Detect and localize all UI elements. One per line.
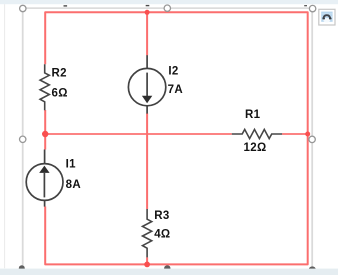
selection handle top-middle [164, 5, 170, 11]
svg-text:R1: R1 [245, 109, 261, 121]
current source I1 [26, 150, 63, 207]
junction node left-middle [42, 131, 48, 137]
bottom blue strip [0, 269, 338, 275]
selection handle bottom-left (clipped by strip) [19, 265, 25, 271]
selection handle bottom-middle (clipped by strip) [164, 265, 170, 271]
faint left panel line [4, 4, 5, 268]
junction node top [145, 10, 150, 15]
resistor R2 [40, 64, 49, 110]
wire middle vertical below R3 [146, 257, 148, 264]
resistor R3 [143, 209, 152, 257]
scroll button top-right [319, 9, 335, 25]
svg-text:4Ω: 4Ω [154, 229, 170, 241]
selection handle left-middle [20, 136, 26, 142]
wire middle horizontal left of R1 [45, 133, 232, 135]
selection handle right-middle [309, 136, 315, 142]
resistor R1 [232, 129, 282, 138]
wire middle vertical between I2 and R3 [146, 113, 148, 209]
selection frame right line [311, 8, 313, 269]
svg-text:I1: I1 [66, 159, 77, 171]
ruler dash left [64, 5, 68, 6]
current source I2 [128, 55, 165, 113]
svg-text:R2: R2 [52, 68, 67, 80]
selection handle top-right [309, 5, 315, 11]
svg-text:6Ω: 6Ω [52, 87, 68, 99]
junction node right-middle [305, 132, 310, 137]
wire middle horizontal right of R1 [282, 133, 308, 135]
selection frame left line [22, 8, 24, 269]
top blue strip [0, 0, 338, 4]
svg-text:I2: I2 [168, 66, 178, 78]
wire outer loop (top, right, bottom) [45, 12, 308, 264]
selection handle bottom-right (clipped by strip) [309, 266, 316, 272]
scroll button glyph [323, 15, 330, 19]
ruler dash middle [146, 5, 150, 6]
selection frame top line [23, 7, 313, 9]
selection handle top-left [20, 5, 26, 11]
svg-text:R3: R3 [154, 210, 169, 222]
svg-text:12Ω: 12Ω [244, 142, 267, 154]
junction node bottom [144, 262, 150, 268]
wire left segment between R2 and I1 [44, 110, 46, 150]
ruler dash right [304, 5, 307, 6]
svg-text:7A: 7A [168, 84, 183, 96]
wire middle vertical above I2 [146, 12, 148, 55]
svg-text:8A: 8A [66, 179, 81, 191]
